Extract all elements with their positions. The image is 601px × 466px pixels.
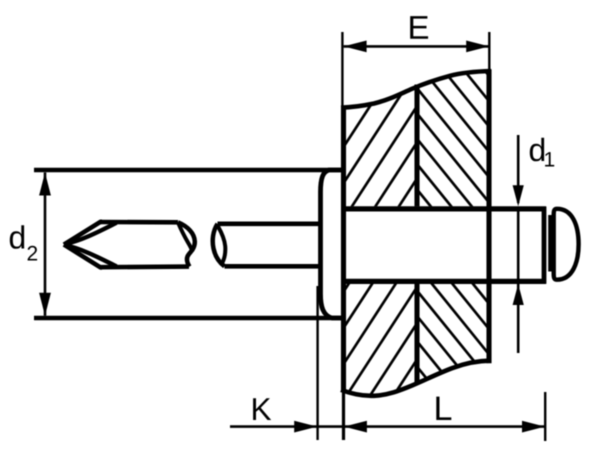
plate right face [486, 69, 491, 363]
K extension line [316, 286, 318, 440]
mandrel tip top edge [100, 220, 178, 225]
mandrel stem bottom edge [225, 264, 321, 269]
label d2 [10, 225, 24, 249]
mandrel break curve (piece 2 outer) [213, 224, 225, 266]
mandrel break curve (piece 1 inner) [178, 223, 192, 252]
plate left face [341, 106, 346, 393]
rivet body top edge [341, 206, 546, 211]
rivet head top line (d2 extension) [34, 168, 344, 173]
hatching lower-left plate [85, 60, 601, 400]
E extension line right [488, 32, 490, 70]
d2 arrowhead up [39, 173, 51, 196]
K arrowhead (points right at K line) [294, 421, 317, 433]
rivet head bottom line (d2 extension) [34, 316, 344, 321]
d1 dimension line through body and lower [517, 208, 520, 353]
L arrowhead left (points left) [344, 421, 367, 433]
d1 arrowhead down [513, 185, 524, 206]
label E [410, 16, 428, 39]
mandrel stem neck at break point [548, 215, 552, 272]
E arrowhead right [466, 41, 489, 53]
mandrel tip lower facet curve [64, 245, 116, 267]
mandrel tip upper facet curve [64, 223, 116, 245]
mandrel stem top edge [218, 222, 321, 227]
rivet body end cap [542, 207, 547, 284]
L arrowhead right (points right) [522, 421, 545, 433]
hatching upper-right plate [128, 60, 601, 400]
plate joint line lower [414, 283, 419, 384]
mandrel head dome [554, 209, 579, 280]
E extension line left [341, 32, 343, 107]
E arrowhead left [344, 41, 367, 53]
K/L dimension line [230, 425, 545, 428]
plate bottom break line (wavy) [341, 361, 491, 396]
mandrel break curve (piece 2 inner) [218, 226, 226, 263]
label d1 [530, 138, 544, 162]
L right extension line [544, 392, 546, 441]
d1 dimension line upper [517, 135, 520, 203]
plate top break line (wavy) [341, 71, 491, 108]
d2 arrowhead down [39, 293, 51, 316]
mandrel tip piece outline [64, 222, 102, 245]
E dimension line [344, 45, 489, 48]
label L [436, 397, 451, 420]
d2 dimension line [44, 173, 47, 316]
hatching lower-right plate [128, 60, 601, 400]
d1 arrowhead up [513, 284, 524, 305]
rivet head outline [321, 170, 344, 318]
L left extension (plate face extended) [342, 390, 345, 440]
mandrel tip bottom edge [100, 264, 189, 269]
rivet body bottom edge [341, 279, 546, 284]
label K [253, 398, 271, 420]
mandrel break curve (piece 1 outer) [178, 222, 195, 266]
plate joint line upper [414, 85, 419, 207]
hatching upper-left plate [85, 60, 601, 400]
